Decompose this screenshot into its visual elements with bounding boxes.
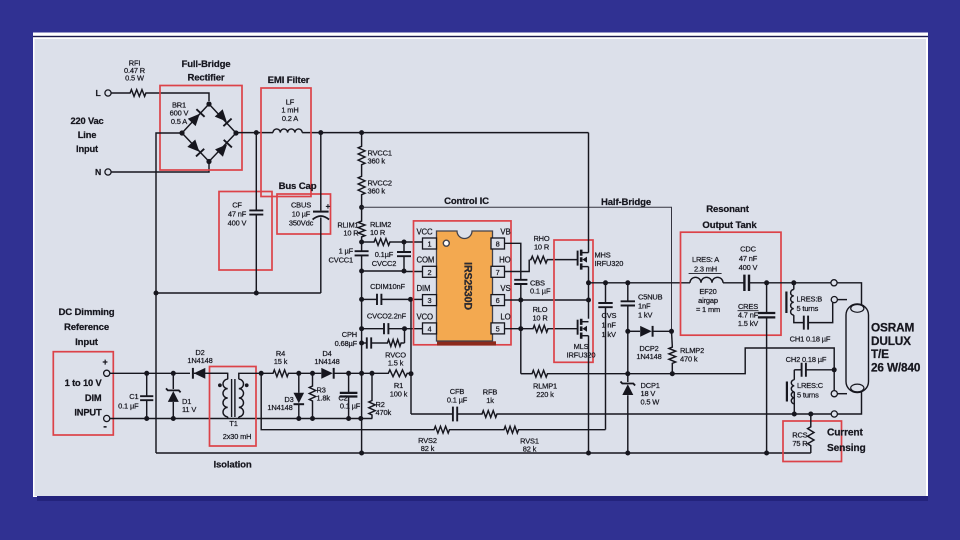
wire VCC rail down: [361, 271, 363, 453]
svg-text:T/E: T/E: [871, 347, 889, 361]
svg-text:Sensing: Sensing: [827, 443, 866, 454]
svg-text:0.5 W: 0.5 W: [641, 397, 660, 406]
svg-text:2: 2: [428, 268, 432, 277]
wire VB pin8 to bootstrap: [505, 243, 521, 279]
capacitor CVCO: [362, 328, 384, 330]
junction DIM node: [359, 297, 364, 302]
junction D3 R3 taps top: [296, 371, 301, 376]
wire CH2 node to lamp pin 3: [833, 370, 835, 391]
junction CH2 node: [832, 367, 837, 372]
resistor R3: [312, 373, 314, 385]
svg-text:82 k: 82 k: [421, 444, 435, 453]
diode DCP2: [628, 330, 640, 332]
wire VS pin6 line: [505, 299, 589, 301]
svg-text:CVCC1: CVCC1: [329, 256, 353, 265]
svg-text:470k: 470k: [376, 408, 392, 417]
svg-text:400 V: 400 V: [228, 219, 247, 228]
junction charge-pump feed node: [359, 205, 364, 210]
svg-text:400 V: 400 V: [739, 263, 758, 272]
terminal N: [105, 169, 111, 175]
wire VCO node down: [404, 329, 406, 343]
junction DIM feedback at R1: [409, 371, 414, 376]
capacitor CFB: [453, 407, 457, 422]
svg-text:2.3 mH: 2.3 mH: [694, 265, 717, 274]
svg-text:47 nF: 47 nF: [228, 210, 247, 219]
wire RHO to MHS gate: [549, 259, 578, 261]
wire half-bridge rail top: [588, 133, 590, 253]
IC U1 IRS2530D body: [437, 341, 496, 345]
svg-text:75 R: 75 R: [792, 439, 808, 448]
red box T1: [210, 367, 257, 447]
wire LO pin5 to RLO: [505, 328, 533, 330]
svg-text:COM: COM: [417, 256, 435, 265]
svg-text:1 to 10 V: 1 to 10 V: [65, 378, 103, 388]
resistor RVS1: [503, 426, 520, 433]
wire L to RFI: [111, 92, 129, 94]
wire lamp pin4 to tube: [837, 392, 861, 414]
svg-text:82 k: 82 k: [523, 445, 537, 454]
wire VCO to pin 4: [405, 328, 423, 330]
svg-text:1: 1: [428, 240, 432, 249]
svg-text:1 kV: 1 kV: [602, 330, 616, 339]
wire DIM to pin 3: [411, 298, 423, 300]
svg-text:Rectifier: Rectifier: [187, 73, 224, 84]
wire RVCC2 to RLIM1: [361, 196, 363, 220]
svg-text:CVCO2.2nF: CVCO2.2nF: [367, 312, 407, 321]
svg-text:360 k: 360 k: [368, 187, 386, 196]
junction DCP1 taps: [625, 371, 630, 376]
pin 6 VS: [491, 295, 505, 306]
capacitor CH1: [804, 316, 808, 330]
svg-text:1N4148: 1N4148: [187, 356, 212, 365]
zener DCP1: [621, 382, 636, 386]
svg-text:100 k: 100 k: [390, 390, 408, 399]
svg-text:1N4148: 1N4148: [314, 357, 339, 366]
junction dim return line: [296, 416, 301, 421]
resistor R4: [272, 370, 290, 377]
resistor RVCC2: [361, 166, 363, 175]
red box half-bridge MOSFETs: [554, 240, 593, 362]
diode D3: [298, 373, 300, 393]
inductor LF: [273, 129, 302, 133]
pin 4 VCO: [423, 323, 437, 334]
svg-text:Current: Current: [827, 428, 863, 439]
svg-text:350Vdc: 350Vdc: [289, 219, 314, 228]
svg-text:15 k: 15 k: [274, 357, 288, 366]
resistor RCS: [810, 414, 812, 426]
junction D1 taps: [171, 371, 176, 376]
capacitor CPH: [362, 342, 367, 344]
svg-text:470 k: 470 k: [680, 355, 698, 364]
transistor MLS IRFU320: [577, 320, 579, 335]
pin 5 LO: [491, 323, 505, 334]
wire charge pump supply line to RLMP2 node: [362, 207, 672, 331]
svg-text:7: 7: [496, 268, 500, 277]
junction bridge vertices: [206, 101, 211, 106]
svg-text:1 nF: 1 nF: [602, 321, 617, 330]
wire half-bridge midpoint: [588, 267, 590, 319]
resistor RLMP1: [521, 373, 531, 375]
wire RLMP2 to lamp heater CH2: [672, 348, 834, 374]
svg-text:DIM: DIM: [85, 393, 102, 403]
svg-text:CBUS: CBUS: [291, 201, 311, 210]
wire N to bridge bottom: [111, 164, 209, 172]
svg-text:1 µF: 1 µF: [339, 247, 354, 256]
wire COM to pin 2: [404, 271, 423, 273]
wire CBS-VS-RLMP1 vertical: [520, 300, 522, 374]
svg-text:CPH: CPH: [342, 330, 357, 339]
svg-text:10 R: 10 R: [343, 229, 359, 238]
junction C5NUB tap: [625, 280, 630, 285]
inductor LRES:A: [690, 277, 723, 283]
junction CDC-CRES node: [764, 280, 769, 285]
svg-text:1N4148: 1N4148: [267, 403, 292, 412]
junction CVS tap: [603, 280, 608, 285]
svg-text:1.5 k: 1.5 k: [388, 359, 404, 368]
svg-text:Input: Input: [75, 337, 99, 348]
capacitor CBS: [514, 280, 527, 284]
capacitor CH2: [794, 369, 801, 371]
transformer T1: [194, 373, 228, 379]
svg-text:0.1 µF: 0.1 µF: [447, 396, 468, 405]
svg-text:Resonant: Resonant: [706, 204, 749, 215]
resistor RFB: [457, 413, 481, 415]
wire DIM feedback vertical: [410, 299, 412, 414]
resistor RFI: [129, 90, 147, 97]
junction RCS tap: [808, 412, 813, 417]
svg-text:C1: C1: [129, 392, 138, 401]
svg-text:10 R: 10 R: [370, 228, 386, 237]
wire DIM minus line: [110, 418, 373, 420]
junction MLS source ground: [586, 451, 591, 456]
svg-text:0.5 W: 0.5 W: [125, 74, 144, 83]
wire R4 to D4: [290, 372, 322, 374]
svg-text:Bus Cap: Bus Cap: [279, 181, 317, 192]
svg-text:Full-Bridge: Full-Bridge: [182, 59, 231, 70]
svg-text:CH1 0.18 µF: CH1 0.18 µF: [790, 335, 831, 344]
junction DC- rail: [154, 291, 159, 296]
zener D1: [172, 373, 174, 389]
red box Bus Cap: [277, 194, 331, 234]
svg-text:8: 8: [496, 240, 500, 249]
svg-text:DULUX: DULUX: [871, 334, 911, 348]
resistor RHO: [530, 256, 549, 263]
svg-text:2x30 mH: 2x30 mH: [223, 432, 252, 441]
svg-text:0.5 A: 0.5 A: [171, 117, 187, 126]
terminal lamp pin 2: [831, 297, 837, 303]
svg-text:6: 6: [496, 296, 500, 305]
svg-text:-: -: [103, 421, 107, 433]
svg-text:CF: CF: [232, 201, 242, 210]
svg-text:0.2 A: 0.2 A: [282, 114, 298, 123]
svg-text:10 µF: 10 µF: [292, 210, 311, 219]
svg-text:0.1 µF: 0.1 µF: [340, 402, 361, 411]
svg-text:220 k: 220 k: [536, 390, 554, 399]
svg-text:+: +: [102, 357, 107, 367]
svg-text:1.5 kV: 1.5 kV: [738, 319, 758, 328]
svg-text:= 1 mm: = 1 mm: [696, 305, 720, 314]
wire RVS2 to RVS1: [451, 429, 504, 431]
svg-text:VB: VB: [500, 227, 510, 236]
red box full-bridge rectifier: [160, 86, 242, 171]
svg-text:47 nF: 47 nF: [739, 254, 758, 263]
svg-text:Output Tank: Output Tank: [702, 220, 757, 231]
svg-text:10 R: 10 R: [534, 243, 550, 252]
wire LRES:B to CH1: [794, 315, 804, 323]
svg-text:LRES: A: LRES: A: [692, 255, 719, 264]
wire HO pin7 to RHO: [505, 260, 530, 272]
svg-text:Half-Bridge: Half-Bridge: [601, 197, 651, 208]
wire DC+ rail bridge to EMI choke: [236, 132, 273, 134]
bridge diode D-TR: [215, 109, 232, 126]
resistor RLIM2: [373, 239, 391, 246]
junction CF tap on DC+ rail: [254, 130, 259, 135]
svg-text:360 k: 360 k: [368, 157, 386, 166]
wire DC- from bridge left vertex: [156, 133, 182, 453]
bridge diode D-BL: [187, 139, 204, 156]
svg-text:EMI Filter: EMI Filter: [268, 75, 310, 86]
svg-text:L: L: [95, 88, 100, 98]
bridge diode D-TL: [188, 109, 205, 126]
red box CF: [219, 192, 272, 271]
capacitor CVS: [605, 283, 607, 303]
svg-text:0.1 µF: 0.1 µF: [118, 402, 139, 411]
red box control IC: [414, 221, 512, 345]
svg-text:OSRAM: OSRAM: [871, 321, 914, 335]
svg-text:LO: LO: [500, 312, 510, 321]
svg-text:CDIM10nF: CDIM10nF: [370, 282, 405, 291]
svg-text:Control IC: Control IC: [444, 196, 489, 207]
red box DIM input: [53, 352, 113, 435]
wire MLS source to ground: [588, 336, 590, 453]
wire bottom ground rail: [156, 452, 811, 454]
svg-text:3: 3: [428, 296, 432, 305]
terminal DIM minus: [104, 415, 110, 421]
wire lamp pin3 stub: [837, 393, 847, 395]
junction VCC node: [359, 240, 364, 245]
red box EMI filter: [261, 88, 311, 197]
wire feedback line left: [411, 413, 453, 415]
junction half-bridge output: [586, 280, 591, 285]
junction VS line: [518, 298, 523, 303]
junction COM rail: [359, 269, 364, 274]
resistor RLMP2: [671, 331, 674, 346]
junction C1 taps: [144, 371, 149, 376]
svg-text:220 Vac: 220 Vac: [70, 116, 103, 126]
junction LRES:C bottom: [792, 412, 797, 417]
svg-text:1nF: 1nF: [638, 302, 651, 311]
svg-text:HO: HO: [499, 256, 510, 265]
wire VS sense line left end: [261, 373, 433, 429]
svg-text:1k: 1k: [486, 396, 494, 405]
resistor RVCC1: [361, 133, 363, 145]
svg-text:0.1 µF: 0.1 µF: [530, 287, 551, 296]
capacitor CDC: [744, 275, 749, 291]
svg-text:1.8k: 1.8k: [317, 394, 331, 403]
svg-text:Line: Line: [78, 130, 97, 140]
pin 8 VB: [491, 238, 505, 249]
resistor R2: [371, 373, 373, 399]
svg-text:IRFU320: IRFU320: [595, 259, 624, 268]
pin 2 COM: [423, 266, 437, 277]
junction CPH tap: [359, 341, 364, 346]
svg-text:10 R: 10 R: [532, 314, 548, 323]
capacitor C5NUB: [627, 283, 629, 302]
svg-text:0.1µF: 0.1µF: [375, 250, 394, 259]
svg-text:VS: VS: [500, 284, 510, 293]
resistor RVCO: [371, 342, 386, 344]
resistor R1: [387, 370, 408, 377]
pin 7 HO: [491, 266, 505, 277]
red box RCS: [783, 421, 842, 462]
svg-text:EF20: EF20: [699, 287, 716, 296]
terminal lamp pin 1: [831, 280, 837, 286]
junction pin1 node: [402, 240, 407, 245]
svg-text:CH2 0.18 µF: CH2 0.18 µF: [786, 355, 827, 364]
svg-text:Reference: Reference: [64, 322, 109, 333]
wire DC- horizontal rail under bus cap: [156, 292, 321, 294]
wire COM rail: [362, 270, 404, 272]
junction after D4: [346, 371, 351, 376]
terminal L: [105, 90, 111, 96]
inductor LRES:C: [793, 370, 795, 380]
svg-text:5 turns: 5 turns: [797, 304, 819, 313]
svg-text:IRS2530D: IRS2530D: [462, 262, 474, 310]
wire VCC to pin 1: [404, 241, 423, 243]
transistor MHS IRFU320: [577, 251, 579, 266]
svg-text:DIM: DIM: [417, 284, 431, 293]
svg-text:Isolation: Isolation: [213, 460, 251, 471]
svg-text:CDC: CDC: [740, 245, 756, 254]
svg-text:Input: Input: [76, 144, 98, 154]
capacitor CVCC1: [361, 242, 363, 251]
svg-text:11 V: 11 V: [182, 405, 196, 414]
junction LO line crossing: [518, 326, 523, 331]
diode D2: [194, 368, 206, 379]
wire RFI to bridge top: [147, 93, 209, 101]
svg-text:C5NUB: C5NUB: [638, 293, 663, 302]
resistor RLO: [532, 325, 549, 332]
junction CBUS and RVCC taps: [318, 130, 323, 135]
wire feedback line to lamp: [498, 413, 831, 415]
svg-text:LRES:B: LRES:B: [797, 295, 823, 304]
wire resonant rail: [589, 282, 691, 284]
wire RLO to MLS gate: [549, 328, 577, 330]
capacitor C2: [348, 373, 350, 393]
inductor LRES:B: [793, 283, 795, 290]
junction LRES:B tap: [791, 280, 796, 285]
wire RVS1 to CVS leg: [520, 429, 606, 431]
capacitor C1: [146, 373, 148, 396]
svg-text:INPUT: INPUT: [74, 408, 102, 418]
svg-text:5: 5: [496, 325, 500, 334]
junction ground rail: [359, 451, 364, 456]
wire DIM plus line: [110, 372, 190, 374]
svg-text:DC Dimming: DC Dimming: [58, 307, 114, 318]
capacitor CBUS electrolytic: [320, 133, 322, 211]
resistor RVS2: [433, 426, 451, 433]
svg-text:T1: T1: [229, 419, 237, 428]
wire lamp pin1 to tube: [837, 283, 861, 305]
svg-text:1 kV: 1 kV: [638, 311, 652, 320]
capacitor CRES: [766, 283, 768, 313]
bridge rectifier BR1 diamond: [182, 104, 236, 162]
wire CH1 to lamp pin 2: [808, 303, 833, 323]
wire DC+ rail after choke to half-bridge: [302, 132, 588, 134]
wire tank rail to lamp: [767, 282, 831, 284]
wire RLIM1 to VCC node: [361, 238, 363, 242]
svg-text:4: 4: [428, 325, 432, 334]
pin 3 DIM: [423, 295, 437, 306]
junction VCO node: [359, 326, 364, 331]
diode D4: [321, 368, 333, 379]
svg-text:VCC: VCC: [417, 227, 434, 236]
svg-text:N: N: [95, 167, 101, 177]
wire LRES:A to CDC: [723, 282, 744, 284]
svg-text:CVCC2: CVCC2: [372, 259, 396, 268]
capacitor CVCC2: [403, 242, 405, 252]
terminal lamp pin 4: [831, 411, 837, 417]
svg-text:5 turns: 5 turns: [797, 391, 819, 400]
junction RLMP2 bottom: [670, 371, 675, 376]
svg-text:26 W/840: 26 W/840: [871, 360, 921, 374]
svg-text:LRES:C: LRES:C: [797, 381, 824, 390]
junction CRES ground: [764, 451, 769, 456]
wire lamp pin2 stub: [837, 299, 847, 301]
svg-text:airgap: airgap: [698, 296, 718, 305]
capacitor CF: [255, 133, 257, 211]
bridge diode D-BR: [215, 140, 232, 157]
red box resonant output tank: [681, 232, 782, 335]
svg-text:VCO: VCO: [417, 312, 434, 321]
resistor RLIM1: [358, 220, 365, 238]
svg-text:1N4148: 1N4148: [636, 352, 661, 361]
lamp OSRAM DULUX tube: [846, 304, 869, 393]
svg-text:CVS: CVS: [602, 311, 617, 320]
wire LRES:C to feedback line: [793, 392, 795, 414]
terminal lamp pin 3: [831, 391, 837, 397]
svg-text:0.68µF: 0.68µF: [335, 339, 358, 348]
capacitor CDIM: [362, 298, 377, 300]
junction DCP2 nodes: [625, 329, 630, 334]
terminal DIM plus: [104, 370, 110, 376]
svg-text:+: +: [326, 202, 331, 211]
svg-text:IRFU320: IRFU320: [567, 351, 596, 360]
pin 1 VCC: [423, 238, 437, 249]
